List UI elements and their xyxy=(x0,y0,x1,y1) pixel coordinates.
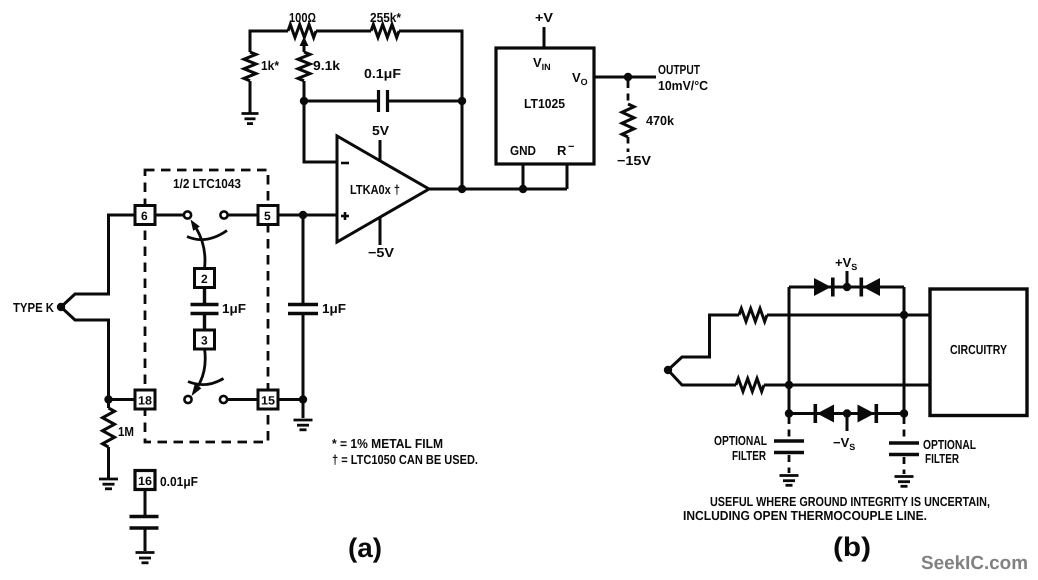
wire +V stub xyxy=(543,27,546,48)
svg-text:470k: 470k xyxy=(646,113,675,128)
svg-text:SeekIC.com: SeekIC.com xyxy=(921,553,1028,574)
svg-text:5V: 5V xyxy=(372,123,389,138)
ground filter left xyxy=(780,476,799,486)
op-amp plus sign xyxy=(341,212,349,220)
diode D2 (to +Vs, right) xyxy=(860,278,881,297)
svg-text:FILTER: FILTER xyxy=(925,451,959,466)
wire bottom rail to circuitry xyxy=(764,384,930,387)
svg-text:1/2 LTC1043: 1/2 LTC1043 xyxy=(173,176,241,191)
svg-text:−5V: −5V xyxy=(368,245,394,260)
IC U2 LT1025 box xyxy=(496,48,594,164)
node dot output/GND pin xyxy=(519,185,527,193)
svg-text:10mV/°C: 10mV/°C xyxy=(658,78,709,93)
wire +Vs stub xyxy=(846,271,849,287)
op-amp -5V supply stub xyxy=(379,217,382,245)
wire top rail to circuitry xyxy=(767,314,930,317)
svg-text:OUTPUT: OUTPUT xyxy=(658,62,700,77)
node dot output/feedback xyxy=(458,185,466,193)
node dot right vertical / diode row xyxy=(900,409,908,417)
svg-text:LT1025: LT1025 xyxy=(524,96,565,111)
switch contact circle bottom-right xyxy=(220,396,227,403)
switch contact circle top-left xyxy=(184,211,191,218)
wire right column down xyxy=(461,101,464,189)
wire 9.1k node to 0.1uF xyxy=(304,100,377,103)
op-amp 5V supply stub xyxy=(379,140,382,162)
wire contact to pin5 xyxy=(228,214,258,217)
wire 255k-to-right-corner xyxy=(399,31,462,101)
resistor top line (b) xyxy=(739,309,767,322)
filter capacitor right xyxy=(889,443,919,455)
wire left clamp vertical xyxy=(788,287,791,414)
thermocouple (b) lower lead xyxy=(668,370,736,385)
svg-text:FILTER: FILTER xyxy=(732,448,766,463)
svg-text:CIRCUITRY: CIRCUITRY xyxy=(950,342,1007,357)
ground below 1k xyxy=(242,114,259,124)
svg-text:2: 2 xyxy=(201,272,208,286)
svg-text:9.1k: 9.1k xyxy=(313,58,341,73)
pin box 3 xyxy=(195,330,215,349)
LTC1043 dashed box xyxy=(145,170,268,442)
resistor bottom line (b) xyxy=(736,379,764,392)
resistor R 1M xyxy=(103,400,115,479)
wire top diode row xyxy=(789,286,904,289)
wire dashed to -15V xyxy=(627,137,630,152)
svg-text:LTKA0x †: LTKA0x † xyxy=(350,182,400,197)
pin box 18 xyxy=(135,390,155,409)
svg-text:1k*: 1k* xyxy=(261,58,280,73)
switch contact circle top-right xyxy=(220,211,227,218)
ground below 0.01uF xyxy=(136,553,155,563)
wire GND pin drop xyxy=(522,164,525,189)
svg-text:1μF: 1μF xyxy=(222,301,246,316)
capacitor C 0.1uF xyxy=(379,90,388,112)
svg-text:15: 15 xyxy=(261,394,275,408)
svg-text:TYPE K: TYPE K xyxy=(13,300,55,315)
svg-text:(a): (a) xyxy=(348,533,382,563)
pin box 2 xyxy=(195,269,215,288)
svg-text:GND: GND xyxy=(510,143,536,158)
svg-text:5: 5 xyxy=(264,209,271,223)
svg-text:100Ω: 100Ω xyxy=(289,10,316,25)
diode D4 (from -Vs, right) xyxy=(858,404,879,423)
resistor R 9.1k xyxy=(298,52,310,101)
wire 100ohm-to-255k xyxy=(316,30,371,33)
wire dashed to 470k xyxy=(627,81,630,104)
resistor R 1k* xyxy=(244,31,256,113)
filter cap left dashed leads xyxy=(788,417,791,473)
svg-text:255k*: 255k* xyxy=(370,10,402,25)
node dot left vertical / diode row xyxy=(785,409,793,417)
op-amp minus sign xyxy=(341,162,349,165)
pin box 5 xyxy=(258,206,278,225)
svg-text:(b): (b) xyxy=(833,532,871,562)
thermocouple (b) junction xyxy=(664,366,672,374)
node dot plus input / 1uF xyxy=(299,211,307,219)
wire top rail (a) xyxy=(250,31,288,33)
pin box 16 xyxy=(135,471,155,490)
svg-text:+VS: +VS xyxy=(835,255,857,272)
node dot 9.1k/0.1uF xyxy=(300,97,308,105)
wire pin6 to switch contact xyxy=(155,214,184,217)
capacitor C 1uF external xyxy=(288,215,318,418)
svg-text:OPTIONAL: OPTIONAL xyxy=(923,437,976,452)
wire R- pin drop xyxy=(566,164,569,189)
node dot right column top xyxy=(458,97,466,105)
ground below external 1uF xyxy=(294,420,313,430)
capacitor C 1uF internal plates xyxy=(191,288,219,331)
resistor pot 100ohm xyxy=(288,25,316,38)
ground filter right xyxy=(895,477,914,487)
thermocouple TYPE K junction xyxy=(57,303,65,311)
svg-text:6: 6 xyxy=(141,209,148,223)
pot wiper arrow xyxy=(300,37,309,53)
thermocouple lower lead xyxy=(61,307,135,400)
wire right clamp vertical xyxy=(903,287,906,414)
svg-text:INCLUDING OPEN THERMOCOUPLE LI: INCLUDING OPEN THERMOCOUPLE LINE. xyxy=(683,508,927,523)
wire pin5 to op-amp plus xyxy=(278,214,337,217)
node dot output tap xyxy=(624,73,632,81)
switch travel arc top xyxy=(187,231,227,240)
svg-text:+V: +V xyxy=(535,10,553,25)
wire Vo output xyxy=(594,76,656,79)
switch contact circle bottom-left xyxy=(184,396,191,403)
node dot -Vs xyxy=(843,409,851,417)
wire contact to pin15 xyxy=(228,398,259,401)
pin box 6 xyxy=(135,206,155,225)
node dot pin15/cap xyxy=(299,395,307,403)
svg-text:VO: VO xyxy=(572,70,588,87)
node dot 1M tap xyxy=(104,395,112,403)
switch arm bottom with arrow xyxy=(192,349,206,397)
wire 0.1uF to right column xyxy=(388,100,463,103)
node dot right vertical / top rail xyxy=(900,311,908,319)
svg-text:R: R xyxy=(557,143,567,158)
switch arm top with arrow xyxy=(191,220,205,269)
node dot +Vs xyxy=(843,283,851,291)
node dot left vertical / bottom rail xyxy=(785,381,793,389)
svg-text:−VS: −VS xyxy=(833,435,855,452)
svg-text:† = LTC1050 CAN BE USED.: † = LTC1050 CAN BE USED. xyxy=(332,452,478,467)
resistor R 255k* xyxy=(371,25,399,38)
svg-text:0.1μF: 0.1μF xyxy=(364,66,401,81)
svg-text:1μF: 1μF xyxy=(322,301,346,316)
svg-text:18: 18 xyxy=(138,394,152,408)
wire pin15 to ground node xyxy=(278,398,303,401)
svg-text:OPTIONAL: OPTIONAL xyxy=(714,433,767,448)
ground below 1M xyxy=(99,479,118,489)
wire bottom diode row xyxy=(789,412,904,415)
svg-text:VIN: VIN xyxy=(533,55,551,72)
wire inverting input xyxy=(304,101,337,162)
svg-text:−15V: −15V xyxy=(617,153,651,168)
thermocouple (b) upper lead xyxy=(668,315,739,370)
svg-text:−: − xyxy=(568,141,574,153)
svg-text:USEFUL WHERE GROUND INTEGRITY: USEFUL WHERE GROUND INTEGRITY IS UNCERTA… xyxy=(710,494,990,509)
switch travel arc bottom xyxy=(188,379,224,385)
pin box 15 xyxy=(258,390,278,409)
svg-text:0.01μF: 0.01μF xyxy=(160,474,198,489)
svg-text:1M: 1M xyxy=(118,424,134,439)
thermocouple upper lead xyxy=(61,215,135,307)
filter cap right dashed leads xyxy=(903,417,906,474)
resistor R 470k xyxy=(622,104,634,137)
op-amp U1 LTKA0x triangle xyxy=(337,136,429,242)
svg-text:3: 3 xyxy=(201,334,208,348)
filter capacitor left xyxy=(774,441,804,453)
wire -Vs stub xyxy=(846,414,849,432)
wire op-amp output xyxy=(429,188,567,191)
diode D1 (to +Vs, left) xyxy=(814,278,835,297)
svg-text:* = 1% METAL FILM: * = 1% METAL FILM xyxy=(332,436,443,451)
diode D3 (from -Vs, left) xyxy=(814,404,835,423)
capacitor C 0.01uF xyxy=(130,490,159,552)
IC CIRCUITRY box xyxy=(930,289,1027,416)
svg-text:16: 16 xyxy=(138,474,152,488)
